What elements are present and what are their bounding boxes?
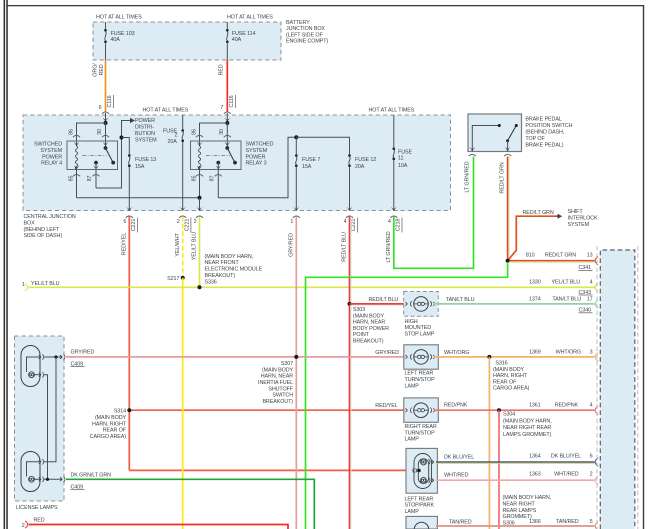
splice S316 <box>487 355 491 359</box>
wire LT GRN/RED (fuse 11 output) to brake pedal switch <box>394 157 474 269</box>
svg-text:CARGO AREA): CARGO AREA) <box>493 386 530 392</box>
svg-text:DK BLU/YEL: DK BLU/YEL <box>551 454 581 460</box>
splice S307 <box>294 355 298 359</box>
fuse 114 40A <box>226 22 228 29</box>
svg-text:3: 3 <box>590 349 593 355</box>
svg-text:30: 30 <box>97 129 103 135</box>
svg-text:6: 6 <box>99 105 102 111</box>
splice S217 <box>181 276 185 280</box>
page frame top border <box>6 5 644 6</box>
svg-text:LEFT REAR: LEFT REAR <box>405 496 434 502</box>
svg-text:TOP OF: TOP OF <box>525 136 545 142</box>
splice S336 <box>198 285 202 289</box>
svg-text:HOT AT ALL TIMES: HOT AT ALL TIMES <box>96 15 142 21</box>
svg-text:SHIFT: SHIFT <box>568 209 584 215</box>
svg-text:C221: C221 <box>184 219 190 232</box>
stop/park lamp internal feed <box>413 468 414 474</box>
svg-text:85: 85 <box>69 176 75 182</box>
svg-text:YEL/LT BLU: YEL/LT BLU <box>552 280 581 286</box>
wire relay coils ground bus (pins 85) <box>77 197 200 199</box>
svg-text:15A: 15A <box>302 164 312 170</box>
svg-text:11: 11 <box>398 155 403 161</box>
svg-text:S304: S304 <box>503 411 515 417</box>
wire to relay 3 coil pin 86 <box>200 123 228 146</box>
svg-text:BRAKE PEDAL: BRAKE PEDAL <box>525 116 561 122</box>
wire TAN/RED <box>436 525 595 527</box>
splice S303 <box>348 302 352 306</box>
svg-text:SWITCHED: SWITCHED <box>246 142 274 148</box>
svg-text:20A: 20A <box>355 164 365 170</box>
svg-text:40A: 40A <box>232 37 242 43</box>
svg-text:DISTRI-: DISTRI- <box>135 124 154 130</box>
svg-text:86: 86 <box>192 129 198 135</box>
relay 3 pin 85 lead <box>199 167 201 198</box>
node brake signal junction <box>508 216 558 261</box>
splice S304 <box>497 408 501 412</box>
svg-text:ORG/: ORG/ <box>93 63 99 77</box>
brake switch right pin <box>507 141 509 152</box>
wire ORG/RED from fuse 103 <box>105 60 107 112</box>
svg-text:30: 30 <box>219 129 225 135</box>
svg-text:TAN/LT BLU: TAN/LT BLU <box>446 297 475 303</box>
svg-text:FUSE 7: FUSE 7 <box>302 157 320 163</box>
rear lamps outer boundary (dashed) <box>596 246 598 529</box>
relay 4 pin 85 lead <box>76 167 78 198</box>
svg-text:LT GRN/RED: LT GRN/RED <box>386 231 392 262</box>
svg-text:15A: 15A <box>135 164 145 170</box>
svg-text:REAR OF: REAR OF <box>103 428 127 434</box>
svg-text:JUNCTION BOX: JUNCTION BOX <box>286 26 325 32</box>
svg-text:C221: C221 <box>131 219 137 232</box>
svg-text:BREAKOUT): BREAKOUT) <box>353 338 384 344</box>
arrow to power distribution system <box>130 118 135 123</box>
splice S314 <box>127 408 131 412</box>
node relay 85 junction <box>198 196 202 200</box>
wire YEL/LT BLU horizontal run <box>29 286 597 288</box>
node fuse 13 tap <box>120 136 124 140</box>
svg-text:TURN/STOP: TURN/STOP <box>405 377 436 383</box>
svg-text:POWER: POWER <box>246 154 266 160</box>
svg-text:RIGHT REAR: RIGHT REAR <box>405 424 437 430</box>
svg-text:S307: S307 <box>281 361 293 367</box>
svg-text:FUSE 13: FUSE 13 <box>135 157 156 163</box>
svg-text:85: 85 <box>192 176 198 182</box>
relay 4 pin 87 lead <box>95 170 97 189</box>
svg-text:FUSE 114: FUSE 114 <box>232 31 256 37</box>
svg-text:1361: 1361 <box>529 402 541 408</box>
svg-text:HIGH: HIGH <box>405 319 418 325</box>
svg-text:WHT/ORG: WHT/ORG <box>556 349 581 355</box>
svg-text:GRY/RED: GRY/RED <box>71 350 95 356</box>
left rear turn/stop lamp <box>404 345 439 369</box>
fuse 103 40A <box>105 22 107 29</box>
brake pedal position switch <box>468 114 522 152</box>
svg-text:C218: C218 <box>395 219 401 232</box>
svg-text:SIDE OF DASH): SIDE OF DASH) <box>24 233 63 239</box>
svg-text:87: 87 <box>87 176 93 182</box>
svg-text:SYSTEM: SYSTEM <box>568 222 590 228</box>
node feed split relay 4 <box>104 121 108 125</box>
svg-text:CENTRAL JUNCTION: CENTRAL JUNCTION <box>24 214 76 220</box>
switched system power relay 3 <box>191 141 242 170</box>
svg-text:(MAIN BODY: (MAIN BODY <box>493 367 525 373</box>
svg-text:WHT/ORG: WHT/ORG <box>444 350 469 356</box>
svg-text:S314: S314 <box>114 409 126 415</box>
svg-text:POWER: POWER <box>135 118 155 124</box>
svg-text:POINT: POINT <box>353 332 370 338</box>
svg-text:BODY POWER: BODY POWER <box>353 326 389 332</box>
svg-text:LAMP: LAMP <box>405 384 420 390</box>
svg-text:YEL/LT BLU: YEL/LT BLU <box>192 232 198 261</box>
svg-text:1330: 1330 <box>529 280 541 286</box>
svg-text:17: 17 <box>587 297 593 303</box>
fuse 11 10A <box>393 115 395 147</box>
svg-text:1364: 1364 <box>529 454 541 460</box>
svg-text:NEAR FRONT: NEAR FRONT <box>205 260 240 266</box>
svg-text:CARGO AREA): CARGO AREA) <box>90 434 127 440</box>
svg-text:STOP LAMP: STOP LAMP <box>405 332 435 338</box>
page frame right border <box>643 5 644 529</box>
svg-text:1369: 1369 <box>529 349 541 355</box>
svg-text:87: 87 <box>210 176 216 182</box>
license lamp internal ground bus <box>44 375 48 480</box>
connector C409 (feed) <box>60 355 62 359</box>
svg-text:LEFT REAR: LEFT REAR <box>405 371 434 377</box>
svg-text:BUTION: BUTION <box>135 131 155 137</box>
wire RED/PNK <box>434 409 595 411</box>
svg-text:LAMP: LAMP <box>405 437 420 443</box>
wire YEL/WHT (fuse 2 output) <box>182 217 184 278</box>
wire to relay 3 contact pin 30 <box>226 123 228 146</box>
svg-text:RED: RED <box>34 517 45 523</box>
left connection pin 1 YEL/LT BLU <box>25 284 28 291</box>
svg-text:DK BLU/YEL: DK BLU/YEL <box>444 454 474 460</box>
svg-text:HOT AT ALL TIMES: HOT AT ALL TIMES <box>369 108 415 114</box>
svg-text:(MAIN BODY: (MAIN BODY <box>262 367 294 373</box>
wire relay 3 pin 87 to fuse 7/12 bus <box>218 137 295 198</box>
wire WHT/RED <box>436 479 595 481</box>
svg-text:HARN, RIGHT: HARN, RIGHT <box>92 421 127 427</box>
svg-text:4: 4 <box>388 219 391 225</box>
wire to relay 4 coil pin 86 <box>77 123 106 146</box>
svg-text:S306: S306 <box>503 521 515 527</box>
svg-text:RED/PNK: RED/PNK <box>555 402 579 408</box>
svg-text:YEL/LT BLU: YEL/LT BLU <box>31 281 60 287</box>
svg-text:1363: 1363 <box>529 472 541 478</box>
wire RED/PNK down from S304 <box>498 410 500 529</box>
license lamp internal feed bus <box>44 357 56 462</box>
svg-text:RED/YEL: RED/YEL <box>121 233 127 255</box>
svg-text:POSITION SWITCH: POSITION SWITCH <box>525 123 572 129</box>
fuse 2 20A <box>182 115 184 129</box>
svg-text:REAR OF: REAR OF <box>493 379 517 385</box>
svg-text:4: 4 <box>344 219 347 225</box>
svg-text:RELAY 3: RELAY 3 <box>246 161 267 167</box>
svg-text:(MAIN BODY: (MAIN BODY <box>353 314 385 320</box>
relay 3 coil <box>198 146 200 169</box>
svg-text:RED/LT BLU: RED/LT BLU <box>342 232 348 262</box>
wire relay 4 pin 87 to power distribution and fuse 13 <box>96 121 130 189</box>
switched system power relay 4 <box>67 141 118 170</box>
svg-text:TAN/LT BLU: TAN/LT BLU <box>552 297 581 303</box>
svg-text:SYSTEM: SYSTEM <box>40 148 62 154</box>
wire GRY/RED (fuse 7 output) <box>295 217 297 529</box>
svg-text:MOUNTED: MOUNTED <box>405 325 432 331</box>
relay 4 switch blade <box>104 146 108 150</box>
wire GRY/RED from license lamps to left rear turn/stop lamp <box>66 356 409 358</box>
svg-text:BATTERY: BATTERY <box>286 20 310 26</box>
svg-text:RED/YEL: RED/YEL <box>375 403 397 409</box>
svg-text:20A: 20A <box>168 139 178 145</box>
stop/park lamp filament 2 <box>421 477 427 483</box>
wire RED/LT BLU (fuse 12 output) <box>350 217 352 529</box>
wire fuse bus to fuse 12 <box>296 137 349 154</box>
svg-text:SYSTEM: SYSTEM <box>246 148 268 154</box>
svg-text:RELAY 4: RELAY 4 <box>41 161 62 167</box>
fuse 13 15A <box>128 154 131 157</box>
svg-text:WHT/RED: WHT/RED <box>554 472 579 478</box>
relay 3 pin 87 lead <box>217 170 219 198</box>
svg-text:(LEFT SIDE OF: (LEFT SIDE OF <box>286 32 323 38</box>
svg-text:BREAKOUT): BREAKOUT) <box>262 399 293 405</box>
svg-text:2: 2 <box>22 523 25 529</box>
svg-text:SWITCHED: SWITCHED <box>34 142 62 148</box>
brake switch connector marks <box>469 154 476 156</box>
svg-text:RED/LT GRN: RED/LT GRN <box>523 210 554 216</box>
svg-text:810: 810 <box>526 253 535 259</box>
wire RED from fuse 114 <box>226 60 228 112</box>
wire DK BLU/YEL <box>436 463 595 465</box>
svg-text:2: 2 <box>194 219 197 225</box>
svg-text:STOP/PARK: STOP/PARK <box>405 503 435 509</box>
svg-text:SHUTOFF: SHUTOFF <box>268 386 293 392</box>
svg-text:HOT AT ALL TIMES: HOT AT ALL TIMES <box>143 108 189 114</box>
svg-text:REAR LAMPS: REAR LAMPS <box>503 508 537 514</box>
fuse 7 15A <box>295 137 297 154</box>
svg-text:(BEHIND DASH,: (BEHIND DASH, <box>525 129 564 135</box>
high mounted stop lamp <box>404 292 439 317</box>
svg-text:LT GRN/RED: LT GRN/RED <box>464 161 470 192</box>
wire fuse 2 output <box>182 142 184 210</box>
svg-text:HOT AT ALL TIMES: HOT AT ALL TIMES <box>227 15 273 21</box>
svg-text:C116: C116 <box>107 95 113 107</box>
right rear turn/stop lamp <box>404 398 439 422</box>
svg-text:TAN/RED: TAN/RED <box>556 519 579 525</box>
svg-text:HARN, RIGHT: HARN, RIGHT <box>493 373 528 379</box>
svg-text:LICENSE LAMPS: LICENSE LAMPS <box>16 505 58 511</box>
svg-text:1: 1 <box>22 282 25 288</box>
relay 3 pin 87 stub <box>216 161 220 165</box>
wire RED/YEL branch to right rear turn/stop lamp <box>129 409 408 411</box>
wire RED/LT BLU to high mounted stop lamp <box>350 305 408 307</box>
svg-text:S217: S217 <box>167 276 179 282</box>
svg-text:6: 6 <box>123 219 126 225</box>
svg-text:FUSE 103: FUSE 103 <box>111 31 135 37</box>
page frame left double border <box>4 0 6 529</box>
wire YEL/LT BLU (relay coils) <box>199 217 201 288</box>
svg-text:HARN, NEAR: HARN, NEAR <box>261 374 293 380</box>
svg-text:(MAIN BODY: (MAIN BODY <box>95 415 127 421</box>
svg-text:FUSE 12: FUSE 12 <box>355 157 376 163</box>
svg-text:RED: RED <box>218 64 224 75</box>
svg-text:NEAR RIGHT: NEAR RIGHT <box>503 501 536 507</box>
svg-text:DK GRN/LT GRN: DK GRN/LT GRN <box>71 472 112 478</box>
svg-text:2: 2 <box>175 133 178 139</box>
svg-text:S336: S336 <box>205 280 217 286</box>
svg-text:2: 2 <box>177 219 180 225</box>
wire WHT/ORG down from S316 <box>488 357 490 529</box>
wire RED/YEL to left rear stop/park lamp <box>129 469 411 471</box>
svg-text:LAMPS GROMMET): LAMPS GROMMET) <box>503 432 552 438</box>
svg-text:HARN, NEAR: HARN, NEAR <box>353 320 385 326</box>
svg-text:ENGINE COMPT): ENGINE COMPT) <box>286 39 328 45</box>
wire RED/LT GRN to C341 <box>509 261 595 263</box>
svg-text:10A: 10A <box>398 163 408 169</box>
svg-text:S316: S316 <box>495 360 507 366</box>
wire RED/LT GRN from brake switch <box>508 157 510 260</box>
fuse 12 20A <box>348 154 351 157</box>
wire fuse 13 output <box>128 167 130 210</box>
svg-text:RED: RED <box>99 64 105 75</box>
wire license lamp 2 return <box>44 478 62 480</box>
svg-text:S303: S303 <box>353 307 365 313</box>
brake switch left contact <box>472 126 498 152</box>
svg-text:1374: 1374 <box>529 297 541 303</box>
wire RED/YEL (fuse 13 output) <box>128 217 130 471</box>
rear lamp (partial, bottom) <box>406 516 437 529</box>
svg-text:86: 86 <box>69 129 75 135</box>
svg-text:RED/LT BLU: RED/LT BLU <box>369 297 399 303</box>
svg-text:13: 13 <box>587 253 593 259</box>
relay 4 dash-dot divider <box>83 155 107 157</box>
svg-text:(MAIN BODY HARN,: (MAIN BODY HARN, <box>205 254 254 260</box>
svg-text:INTERLOCK: INTERLOCK <box>568 216 598 222</box>
left rear stop/park lamp <box>406 448 437 493</box>
svg-text:2: 2 <box>590 472 593 478</box>
wire license lamp 1 feed <box>44 356 62 358</box>
svg-text:SWITCH: SWITCH <box>272 393 293 399</box>
node feed split relay 3 <box>225 121 229 125</box>
entry arrow right feed into CJB <box>226 113 228 123</box>
svg-text:YEL/WHT: YEL/WHT <box>175 233 181 257</box>
central junction box <box>23 115 451 211</box>
license lamp 2 <box>21 452 40 492</box>
svg-text:7: 7 <box>220 105 223 111</box>
stop/park lamp filament 1 <box>421 459 427 465</box>
svg-text:GROMMET): GROMMET) <box>503 514 532 520</box>
trailer tow connector box <box>600 250 635 529</box>
svg-text:1: 1 <box>290 219 293 225</box>
wire LT GRN/RED from junction to rear lamps feed <box>306 262 508 529</box>
svg-text:NEAR RIGHT REAR: NEAR RIGHT REAR <box>503 425 551 431</box>
svg-text:4: 4 <box>590 280 593 286</box>
relay 4 coil <box>75 146 77 169</box>
svg-text:C221: C221 <box>351 219 357 232</box>
battery junction box <box>93 22 281 60</box>
relay 4 pin 87 stub <box>94 161 98 165</box>
svg-text:BREAKOUT): BREAKOUT) <box>205 273 236 279</box>
svg-text:WHT/RED: WHT/RED <box>444 472 469 478</box>
svg-text:(BEHIND LEFT: (BEHIND LEFT <box>24 227 60 233</box>
wire TAN/LT BLU to C340 <box>434 303 595 305</box>
svg-text:GRY/RED: GRY/RED <box>375 350 399 356</box>
svg-text:(MAIN BODY HARN,: (MAIN BODY HARN, <box>503 495 552 501</box>
wire WHT/ORG <box>434 356 595 358</box>
svg-text:LAMP: LAMP <box>405 509 420 515</box>
wire DK GRN/LT GRN <box>66 479 314 529</box>
entry arrow left feed into CJB <box>105 113 107 123</box>
svg-text:5: 5 <box>590 519 593 525</box>
svg-text:TAN/RED: TAN/RED <box>449 519 472 525</box>
node fuse 7 tap <box>294 135 298 139</box>
svg-text:RED/LT GRN: RED/LT GRN <box>545 253 576 259</box>
svg-text:SYSTEM: SYSTEM <box>135 137 157 143</box>
svg-text:POWER: POWER <box>42 154 62 160</box>
svg-text:(MAIN BODY HARN,: (MAIN BODY HARN, <box>503 418 552 424</box>
license lamp 1 <box>21 346 40 387</box>
svg-text:4: 4 <box>590 402 593 408</box>
relay 3 switch blade <box>225 146 229 150</box>
svg-text:TURN/STOP: TURN/STOP <box>405 430 436 436</box>
svg-text:BRAKE PEDAL): BRAKE PEDAL) <box>525 142 563 148</box>
brake switch blade <box>506 139 509 142</box>
svg-text:ELECTRONIC MODULE: ELECTRONIC MODULE <box>205 267 263 273</box>
svg-text:40A: 40A <box>111 37 121 43</box>
svg-text:C116: C116 <box>229 95 235 107</box>
svg-text:RED/PNK: RED/PNK <box>444 402 468 408</box>
CJB bottom exit connectors <box>126 207 132 211</box>
wire YEL below S217 <box>182 278 184 529</box>
connector C409 (ground) <box>60 477 62 481</box>
svg-text:INERTIA FUEL: INERTIA FUEL <box>258 380 293 386</box>
license lamps box <box>15 336 65 501</box>
svg-text:RED/LT GRN: RED/LT GRN <box>499 162 505 193</box>
svg-text:6: 6 <box>590 454 593 460</box>
svg-text:BOX: BOX <box>24 220 36 226</box>
svg-text:GRY/RED: GRY/RED <box>289 233 295 257</box>
relay 3 dash-dot divider <box>206 155 230 157</box>
wire to relay 4 contact pin 30 <box>105 123 107 146</box>
